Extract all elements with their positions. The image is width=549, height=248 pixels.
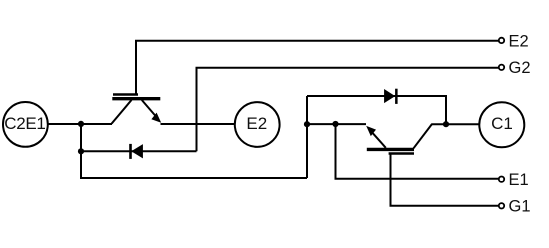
collector slant xyxy=(112,100,132,124)
terminal E2 main xyxy=(235,102,280,147)
svg-text:G2: G2 xyxy=(509,59,531,77)
emitter slant with arrow xyxy=(142,100,157,118)
collector slant xyxy=(414,124,433,148)
svg-text:C2E1: C2E1 xyxy=(4,114,45,133)
terminal C2E1 xyxy=(3,102,48,147)
terminal C1 xyxy=(479,102,524,147)
wire emitter node horizontal xyxy=(307,123,366,125)
body bar (thick) xyxy=(112,97,160,100)
node C junction dot xyxy=(304,121,310,127)
terminal G2 xyxy=(499,59,531,77)
emitter slant with arrow xyxy=(371,131,386,148)
terminal E1 aux xyxy=(499,171,529,189)
gate bar (thin) xyxy=(113,93,138,96)
svg-text:C1: C1 xyxy=(491,114,513,133)
svg-text:E2: E2 xyxy=(509,32,529,50)
wire emitter node down to E1 xyxy=(336,124,499,179)
svg-text:E2: E2 xyxy=(246,114,267,133)
node E junction dot xyxy=(443,121,449,127)
IGBT Q1 gate lead down to G1 xyxy=(391,154,499,206)
node A junction dot xyxy=(78,121,84,127)
body bar (thick) xyxy=(367,148,414,151)
wire diode branch up to G2 xyxy=(197,68,499,151)
diode D1 xyxy=(384,89,397,104)
node B junction dot (diode tap) xyxy=(78,148,84,154)
IGBT Q1 (right) xyxy=(366,124,432,154)
diode D2 xyxy=(129,144,142,159)
svg-text:G1: G1 xyxy=(509,198,531,216)
wire bottom rail xyxy=(80,177,307,179)
node D junction dot xyxy=(332,121,338,127)
wire diode branch horizontal xyxy=(81,150,197,152)
wire diode top branch xyxy=(307,96,446,124)
wire riser x307 xyxy=(306,96,308,178)
svg-text:E1: E1 xyxy=(509,171,529,189)
IGBT Q2 gate lead xyxy=(136,41,499,94)
terminal G1 xyxy=(499,198,531,216)
terminal E2 aux xyxy=(499,32,529,50)
wire Q2 emitter to E2 main xyxy=(161,123,235,125)
IGBT Q2 (left) xyxy=(112,95,162,124)
wire Q1 collector to C1 xyxy=(432,123,480,125)
gate bar (thin) xyxy=(389,152,414,155)
wire C2E1 to collector node xyxy=(48,123,112,125)
wire node A vertical down xyxy=(80,124,82,178)
